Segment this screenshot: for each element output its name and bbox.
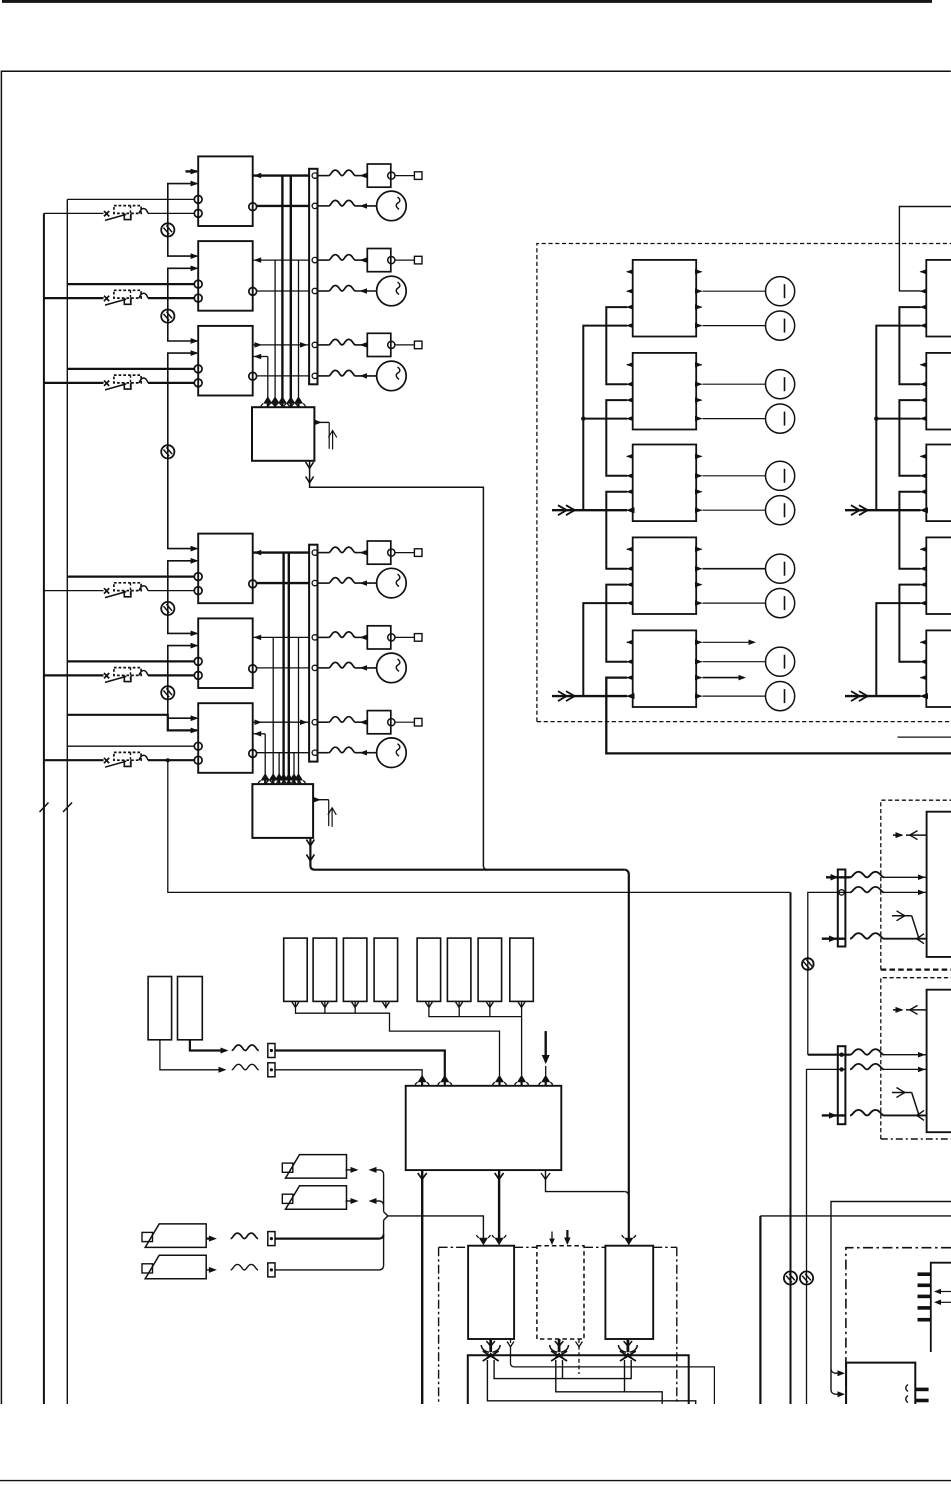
wire rail1 to switch L2 [44, 674, 104, 676]
pod P2 bottom heavy dashed edge [881, 1138, 951, 1140]
wire box L3 out row to bus [253, 721, 309, 723]
meter unit box M1 [633, 260, 697, 337]
wire box M3 pin4 lamp feed [703, 509, 766, 511]
box N2 left pin 1 [921, 364, 927, 366]
box L2 left pin circle 3 [194, 658, 202, 666]
feed arrow 1 into meter group [552, 509, 627, 511]
box U2 right pin circle [249, 288, 257, 296]
box M3 right pin 4 [696, 509, 701, 511]
wire slot F1 down [294, 1001, 296, 1007]
box M1 right pin 1 [696, 271, 701, 273]
indicator lamp IL8 [766, 589, 795, 618]
box N4 left pin 2 [921, 568, 927, 570]
bus pin circle lamp row 3 [312, 373, 317, 378]
wire rail2 to box U1 pin 3 [67, 198, 194, 200]
wire slot F4 down [385, 1001, 387, 1007]
box M3 left pin 3 [627, 491, 633, 493]
box M4 left pin 1 [627, 548, 633, 550]
ignition coil box IG1 [468, 1246, 514, 1339]
diaphragm switch SWU3 [104, 381, 109, 386]
box M1 right pin 2 [696, 290, 701, 292]
power rail bus 2 (left) [66, 199, 68, 1404]
indicator lamp IL6 [766, 496, 795, 525]
box M4 right pin 3 [696, 584, 701, 586]
box M3 right pin 3 [696, 491, 701, 493]
box M5 left pin 4 [627, 695, 633, 697]
box U1 left arrow pin 1 [191, 169, 199, 175]
box L3 right pin circle [249, 750, 257, 758]
control module box U1 [198, 156, 253, 226]
wire box U3 return row [253, 356, 268, 358]
wire box L2 lamp row to bus [256, 667, 309, 669]
bus pin circle relay row 4 [312, 550, 317, 555]
wire switch to box L3 pin 4 [148, 759, 194, 761]
box L2 left arrow pin 2 [191, 643, 199, 649]
box U2 left arrow pin 2 [191, 266, 199, 272]
box M5 left pin 1 [627, 641, 633, 643]
indicator lamp IL10 [766, 682, 795, 711]
box U3 left arrow pin 2 [191, 350, 199, 356]
frame ground symbol on rail A [784, 1271, 797, 1284]
plug lead bus 1 [468, 1355, 689, 1404]
inlet sensor P4 [145, 1255, 206, 1279]
frame ground symbol [161, 223, 174, 236]
box M1 right pin 4 [696, 325, 701, 327]
wire rail1 to switch L1 [44, 590, 104, 592]
wire slot F2 down [324, 1001, 326, 1007]
spark plug mate symbol under IG3 [627, 1339, 630, 1352]
rail drop from CN-D row2 [807, 1069, 846, 1404]
connector CN-C [838, 870, 846, 947]
wire rail1 to switch U1 [44, 212, 104, 214]
dash-dot engine enclosure [846, 1248, 951, 1404]
wire rail2 to box L1 pin 3 [67, 575, 194, 577]
frame ground symbol [800, 1271, 813, 1284]
wire box U3 lamp row to bus [256, 375, 309, 377]
wire sensor P2 to merge bus [346, 1200, 356, 1202]
cord to relay 2 [318, 259, 329, 261]
indicator lamp IL3 [766, 370, 795, 399]
wire junction J2 bottom output run W2 [309, 838, 311, 866]
wire box M5 pin4 lamp feed [703, 695, 766, 697]
box M5 right pin 1 [696, 641, 701, 643]
wire box L1 signal row to bus [253, 551, 309, 553]
ground rail A from upper clusters [790, 892, 792, 1404]
box U2 left pin circle 3 [194, 280, 202, 288]
indicator lamp IL5 [766, 461, 795, 490]
box N1 left pin 3 [921, 306, 927, 308]
box M4 right pin 1 [696, 548, 701, 550]
relay/sensor box D2 [367, 249, 391, 272]
cord CN-D row1 to pod [850, 1049, 884, 1055]
meter unit box N5 [926, 630, 951, 707]
plug lead bus 5 [487, 1360, 695, 1404]
warning device lamp B3 [377, 361, 407, 391]
frame ground symbol [161, 310, 174, 323]
engine unit box B2 [846, 1363, 915, 1404]
plug lead bus 3 [494, 1360, 631, 1379]
cord CN-D row3 [850, 1110, 884, 1116]
inlet sensor P2 [286, 1186, 347, 1210]
wire box M4 pin4 lamp feed [703, 602, 766, 604]
box M4 left pin 3 [627, 584, 633, 586]
wire switch to box L1 pin 4 [148, 590, 194, 592]
sensor box S2 [178, 977, 203, 1040]
wire box M2 pin2 lamp feed [703, 383, 766, 385]
warning device lamp B6 [377, 738, 407, 768]
box N4 left pin 3 [921, 584, 927, 586]
wire switch to box U1 pin 4 [148, 212, 194, 214]
staircase link wires right column [899, 307, 920, 384]
cord to lamp 4 [318, 582, 329, 584]
diaphragm switch SWL2 [104, 673, 109, 678]
fuse/relay slot F6 [447, 938, 471, 1001]
diaphragm switch SWU1 [104, 211, 109, 216]
cord to lamp 2 [318, 290, 329, 292]
pod P1 bottom heavy dashed edge [881, 968, 951, 970]
bus pin circle relay row 2 [312, 257, 317, 262]
box L3 left arrow pin 2 [191, 728, 199, 734]
diaphragm switch SWU2 [104, 296, 109, 301]
comb terminal T4 [918, 1306, 931, 1310]
comb terminal T3 [918, 1295, 931, 1299]
comb terminal T1 [918, 1272, 931, 1276]
relay/sensor box D4 [367, 541, 391, 564]
wire feed E2 from right [760, 1215, 951, 1217]
warning device lamp B4 [377, 568, 407, 598]
page bottom rule [0, 1480, 951, 1482]
box M3 right pin 2 [696, 475, 701, 477]
meter unit box N3 [926, 445, 951, 522]
box M1 left pin 2 [627, 290, 633, 292]
break mark on rail 2 [63, 803, 72, 813]
frame ground symbol [802, 958, 814, 970]
box L1 left arrow pin 1 [191, 546, 199, 552]
wire box L3 return row [253, 733, 266, 735]
wire ground link G2 chain [168, 268, 197, 341]
jump feed arrow from above into ECU [545, 1031, 547, 1062]
wire box U1 signal row to bus [253, 174, 309, 176]
wire rail2 to box U3 pin 3 [67, 368, 194, 370]
thick output wire from meter group to right [606, 678, 951, 754]
wire rail2 to box L2 pin 3 [67, 660, 194, 662]
plug lead bus 4 [556, 1360, 662, 1404]
wire sensor S2 to ECU (thick) [190, 1040, 223, 1051]
engine unit box B1 with comb terminals [931, 1263, 951, 1352]
fuse/relay slot F3 [343, 938, 367, 1001]
box U2 left arrow pin 1 [191, 253, 199, 259]
warning device lamp B2 [377, 276, 407, 306]
junction drop wires to junction box J1 [267, 357, 269, 402]
box M4 left pin 2 [627, 568, 633, 570]
bus pin circle lamp row 4 [312, 580, 317, 585]
meter unit box M4 [633, 537, 697, 614]
box U1 left arrow pin 2 [191, 181, 199, 187]
feed rail V2 upper half [583, 326, 627, 511]
spark plug mate symbol under IG2 [558, 1339, 561, 1352]
box U3 left arrow pin 1 [191, 338, 199, 344]
wire ground link G3 chain [168, 353, 197, 548]
wire switch to box L2 pin 4 [148, 674, 194, 676]
pod P1 mating arrows stub [906, 834, 927, 836]
cord CN-C row1 to pod [850, 872, 884, 878]
box N2 left pin 4 [921, 418, 927, 420]
wire box U2 signal row to bus [253, 259, 309, 261]
solid stub line below meter enclosure right [898, 736, 951, 738]
bus pin circle lamp row 5 [312, 665, 317, 670]
pod P2 mating arrows stub [906, 1009, 927, 1011]
box M4 left pin 4 [627, 602, 633, 604]
box M2 right pin 3 [696, 399, 701, 401]
fuse/relay slot F7 [478, 938, 502, 1001]
box N5 left pin 4 [921, 695, 927, 697]
wire ground link G5 chain [168, 646, 197, 719]
control module box U3 [198, 326, 253, 396]
fuse/relay slot F4 [374, 938, 398, 1001]
box U3 right pin circle [249, 372, 257, 380]
fuse/relay slot F1 [284, 938, 308, 1001]
wire box L1 lamp row to bus [256, 582, 309, 584]
dash-dot enclosure ignition assembly [438, 1247, 440, 1404]
wire sensor S1 to ECU [160, 1040, 221, 1070]
meter unit box M5 [633, 630, 697, 707]
warning device lamp B1 [377, 191, 407, 221]
wire box L3 lamp row to bus [256, 752, 309, 754]
pod P1 internal jump arrow pair [892, 915, 912, 917]
box M5 left pin 3 [627, 677, 633, 679]
box M2 left pin 4 [627, 418, 633, 420]
bus pin circle relay row 3 [312, 342, 317, 347]
cord CN-C row2 to pod [850, 887, 884, 893]
fuse group 1 gather bus [296, 1008, 500, 1080]
cord to relay 3 [318, 344, 329, 346]
box N3 left pin 2 [921, 475, 927, 477]
box N4 left pin 1 [921, 548, 927, 550]
box M5 right pin 3 [696, 677, 701, 679]
box L1 right pin circle [249, 580, 257, 588]
box U3 left pin circle 4 [194, 379, 202, 387]
meter unit box N2 [926, 353, 951, 430]
feed rail V2' right column [876, 326, 920, 511]
merge bus output point [384, 1212, 388, 1220]
box M2 left pin 1 [627, 364, 633, 366]
wire switch to box U2 pin 4 [148, 297, 194, 299]
control module box L2 [198, 618, 253, 688]
jump arrow feed into box U1 pin 1 [186, 170, 198, 172]
box L2 right pin circle [249, 665, 257, 673]
fuse group 2 gather bus [429, 1008, 522, 1017]
box U1 right pin circle [249, 203, 257, 211]
long drop wire to ignition box 3 [628, 873, 630, 1238]
comb terminal T5 [918, 1318, 931, 1322]
box M1 left pin 3 [627, 306, 633, 308]
spark plug mate symbol under IG1 [489, 1339, 492, 1352]
wire slot F5 down [428, 1001, 430, 1007]
wire box M1 pin4 lamp feed [703, 325, 766, 327]
indicator lamp IL4 [766, 404, 795, 433]
plug lead bus 2 [514, 1367, 715, 1404]
wire slot F6 down [458, 1001, 460, 1007]
wire ground link G1 chain [168, 184, 197, 257]
break mark on rail 1 [40, 803, 49, 813]
box N1 left pin 4 [921, 325, 927, 327]
IG1 second pin [510, 1339, 512, 1343]
jump arrow into CN-D row3 [822, 1114, 845, 1116]
wire box U2 lamp row to bus [256, 290, 309, 292]
junction box J2 side output with up arrow [313, 799, 329, 801]
wire box M1 pin2 lamp feed [703, 290, 766, 292]
box N5 left pin 2 [921, 661, 927, 663]
sensor merge bus vertical [383, 1174, 385, 1212]
wire box M5 pin1 jump [703, 641, 755, 643]
box M3 left pin 2 [627, 475, 633, 477]
box M1 right pin 3 [696, 306, 701, 308]
meter unit box M3 [633, 445, 697, 522]
arrow into comb 2 [936, 1301, 951, 1303]
bus pin circle lamp row 2 [312, 288, 317, 293]
wire box M5 pin3 jump [703, 677, 745, 679]
fuse/relay slot F8 [510, 938, 534, 1001]
wire switch to box U3 pin 4 [148, 382, 194, 384]
wire sensor P1 to merge bus [346, 1169, 356, 1171]
cord to lamp 3 [318, 375, 329, 377]
box M4 right pin 4 [696, 602, 701, 604]
wire box M3 pin2 lamp feed [703, 475, 766, 477]
box L2 left pin circle 4 [194, 672, 202, 680]
control module box L3 [198, 703, 253, 773]
IG2 second pin dashed [578, 1339, 580, 1374]
stub arrows into IG2 [551, 1232, 553, 1243]
engine control unit ECU box [406, 1086, 562, 1170]
cord to relay 6 [318, 721, 329, 723]
box N3 left pin 1 [921, 455, 927, 457]
bus pin circle relay row 1 [312, 173, 317, 178]
ECU bottom pin B drop to ignition box 1 [498, 1170, 500, 1238]
wire junction J1 bottom output run W1 [310, 461, 484, 866]
indicator lamp IL7 [766, 554, 795, 583]
box M1 left pin 4 [627, 325, 633, 327]
wire box U1 lamp row to bus [256, 205, 309, 207]
box N3 left pin 3 [921, 491, 927, 493]
wire box U3 out row to bus [253, 344, 309, 346]
box N1 left pin 1 [921, 271, 927, 273]
feed arrow 2 into meter group [552, 695, 627, 697]
box U2 left pin circle 4 [194, 294, 202, 302]
box U1 left pin circle 3 [194, 196, 202, 204]
wire rail1 to switch L3 [44, 759, 104, 761]
branch arrows into engine box [831, 1369, 843, 1373]
box L3 left pin circle 4 [194, 756, 202, 764]
cord CN-C row3 [850, 933, 884, 939]
bus pin circle lamp row 6 [312, 750, 317, 755]
box N5 left pin 1 [921, 641, 927, 643]
wire box L2 signal row to bus [253, 636, 309, 638]
box M4 right pin 2 [696, 568, 701, 570]
power rail bus 1 (left) [43, 213, 45, 1404]
meter unit box N4 [926, 537, 951, 614]
box M3 right pin 1 [696, 455, 701, 457]
pod P1 inner unit box [927, 812, 951, 957]
frame ground symbol [161, 445, 174, 458]
box L3 left pin circle 3 [194, 742, 202, 750]
staircase link wires left column [606, 307, 627, 384]
cord to lamp 6 [318, 752, 329, 754]
relay/sensor box D5 [367, 626, 391, 649]
box M5 left pin 2 [627, 661, 633, 663]
control module box U2 [198, 241, 253, 311]
box L1 left pin circle 3 [194, 573, 202, 581]
relay/sensor box D1 [367, 164, 391, 187]
box M1 left pin 1 [627, 271, 633, 273]
wire slot F8 straight to ECU [521, 1008, 523, 1080]
box L3 left arrow pin 1 [191, 716, 199, 722]
frame ground symbol [161, 686, 174, 699]
box N3 left pin 4 [921, 509, 927, 511]
box L2 left arrow pin 1 [191, 631, 199, 637]
junction box J2 [252, 784, 313, 838]
arrow into comb 1 [936, 1291, 951, 1293]
box N1 left pin 2 [921, 290, 927, 292]
wire rail1 to switch U3 [44, 382, 104, 384]
box M2 right pin 4 [696, 418, 701, 420]
bus pin circle relay row 6 [312, 720, 317, 725]
connector CN-D [838, 1046, 846, 1124]
fuse/relay slot F2 [313, 938, 337, 1001]
ground drop wire for CN-C row2 [808, 892, 846, 1054]
cord to lamp 5 [318, 667, 329, 669]
connector bus CN-A (upper) [309, 169, 317, 384]
comb terminal T6 [915, 1388, 928, 1392]
box M5 right pin 2 [696, 661, 701, 663]
diaphragm switch SWL1 [104, 588, 109, 593]
box M2 right pin 1 [696, 364, 701, 366]
cord CN-D row2 to pod [850, 1064, 884, 1070]
wire feed E1 from right [831, 1202, 951, 1391]
dashed enclosure pod P2 [881, 978, 951, 1139]
wire box M4 pin2 lamp feed [703, 568, 766, 570]
pod P2 internal jump arrow pair [892, 1092, 912, 1094]
wire merge bus to ignition box 1 [388, 1216, 484, 1239]
diaphragm switch SWL3 [104, 758, 109, 763]
wire rail2 to box U2 pin 3 [67, 283, 194, 285]
cord to relay 5 [318, 636, 329, 638]
feed arrow 4 into right meter column [845, 695, 921, 697]
meter unit box M2 [633, 353, 697, 430]
box N2 left pin 2 [921, 383, 927, 385]
box N4 left pin 4 [921, 602, 927, 604]
feed arrow 3 into right meter column [845, 509, 921, 511]
pin circle CN-C row2 [839, 890, 844, 895]
wire switch row L3 tee down to long ground run [168, 760, 791, 892]
dashed enclosure pod P1 [881, 800, 951, 969]
fuse/relay slot F5 [417, 938, 441, 1001]
ECU bottom pin C to ignition box 3 [546, 1170, 625, 1192]
cord to lamp 1 [318, 205, 329, 207]
indicator lamp IL1 [766, 277, 795, 306]
warning device lamp B5 [377, 653, 407, 683]
indicator lamp IL2 [766, 311, 795, 340]
box N5 left pin 3 [921, 677, 927, 679]
control module box L1 [198, 534, 253, 604]
box L1 left pin circle 4 [194, 587, 202, 595]
pod P2 inner unit box [927, 990, 951, 1132]
frame ground symbol [161, 602, 174, 615]
top feed wire from page right into box N1 [899, 207, 951, 291]
indicator lamp IL9 [766, 647, 795, 676]
cord to relay 4 [318, 552, 329, 554]
wire rail1 to switch U2 [44, 297, 104, 299]
feed rail V2' lower half right column [876, 603, 920, 696]
